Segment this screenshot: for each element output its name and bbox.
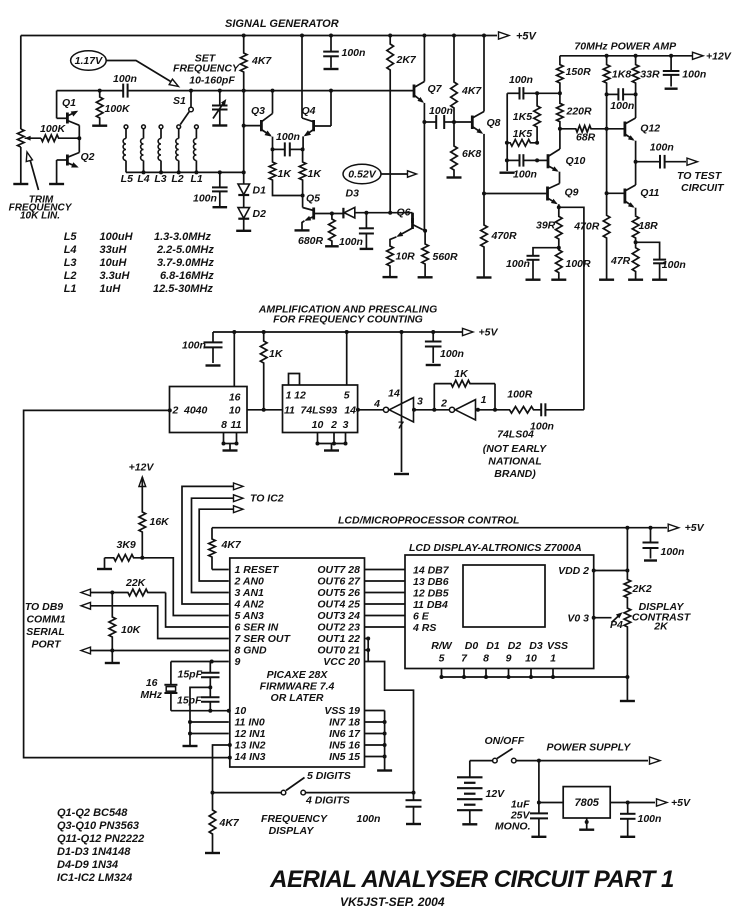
ground 100n detector bbox=[360, 248, 374, 250]
svg-text:L2: L2 bbox=[64, 270, 77, 282]
ground 47R bbox=[628, 279, 643, 281]
svg-text:D2: D2 bbox=[508, 640, 522, 652]
svg-text:+5V: +5V bbox=[685, 522, 705, 534]
transistor Q1 bbox=[66, 113, 69, 124]
wire pin9 bbox=[212, 661, 229, 663]
ground 100n Q11 bbox=[652, 279, 667, 281]
svg-text:Q11-Q12 PN2222: Q11-Q12 PN2222 bbox=[57, 833, 144, 845]
svg-text:10: 10 bbox=[235, 705, 247, 717]
svg-text:680R: 680R bbox=[298, 235, 324, 247]
resistor 18R bbox=[632, 215, 639, 242]
arrow 1.17V pointer bbox=[106, 61, 174, 84]
wire LCD bottom pins bbox=[441, 669, 443, 678]
wire battery top bbox=[470, 760, 493, 762]
svg-text:1: 1 bbox=[286, 390, 292, 402]
wire rail2 left segment bbox=[57, 90, 124, 92]
wire 74LS93 ground pins bbox=[317, 433, 319, 444]
svg-text:150R: 150R bbox=[566, 66, 592, 78]
wire LCD control rail bbox=[212, 527, 667, 529]
ground battery bbox=[469, 810, 471, 823]
resistor 4K7 pulldown bbox=[209, 793, 216, 853]
ground 10R bbox=[383, 276, 398, 278]
svg-text:100R: 100R bbox=[507, 389, 533, 401]
svg-text:Q6: Q6 bbox=[397, 207, 411, 219]
svg-text:P4: P4 bbox=[610, 619, 623, 631]
node 15pF mid bbox=[208, 685, 212, 689]
svg-text:100n: 100n bbox=[662, 259, 686, 271]
resistor 4K7 reset bbox=[211, 528, 213, 538]
wire left vertical rail bbox=[20, 36, 22, 130]
transistor Q9 bbox=[546, 187, 549, 201]
svg-text:IN6 17: IN6 17 bbox=[329, 728, 361, 740]
svg-text:L1: L1 bbox=[190, 173, 202, 185]
svg-text:V0 3: V0 3 bbox=[567, 613, 589, 625]
node pin14 edge bbox=[228, 756, 232, 760]
capacitor 100n Q11 emitter bbox=[636, 242, 660, 259]
resistor 220R bbox=[557, 93, 564, 129]
resistor 150R bbox=[557, 56, 564, 94]
svg-text:D4-D9 1N34: D4-D9 1N34 bbox=[57, 859, 118, 871]
svg-text:MONO.: MONO. bbox=[495, 821, 531, 833]
ground 3K9 bbox=[104, 558, 106, 568]
svg-text:6.8-16MHz: 6.8-16MHz bbox=[160, 270, 214, 282]
svg-text:OUT5 26: OUT5 26 bbox=[317, 587, 360, 599]
wire 4040 pin2 loop bbox=[168, 408, 172, 412]
svg-text:100n: 100n bbox=[610, 100, 634, 112]
resistor 47R bbox=[632, 242, 639, 279]
svg-text:AERIAL ANALYSER CIRCUIT PAR: AERIAL ANALYSER CIRCUIT PART 1 bbox=[269, 866, 674, 893]
power flag +5V bbox=[499, 32, 510, 39]
svg-text:Q7: Q7 bbox=[428, 83, 443, 95]
svg-text:22K: 22K bbox=[125, 577, 147, 589]
ground 100n VCC bbox=[406, 823, 421, 825]
node coil junctions bbox=[142, 170, 146, 174]
ground 100n Q9 bbox=[526, 279, 541, 281]
svg-text:VK5JST-SEP. 2004: VK5JST-SEP. 2004 bbox=[340, 895, 445, 909]
wire fb left vertical bbox=[506, 93, 508, 171]
IC 4040 bbox=[170, 387, 248, 433]
svg-text:SIGNAL GENERATOR: SIGNAL GENERATOR bbox=[225, 18, 339, 30]
svg-text:10: 10 bbox=[525, 653, 537, 665]
svg-text:100n: 100n bbox=[113, 73, 137, 85]
node 33R bottom bbox=[634, 92, 638, 96]
svg-text:12V: 12V bbox=[486, 788, 506, 800]
capacitor 100n fb top bbox=[507, 92, 519, 94]
node 680R top bbox=[330, 212, 334, 216]
capacitor 100n output bbox=[636, 161, 660, 163]
callout 0.52V bbox=[343, 164, 381, 183]
wire D2 bottom bbox=[243, 219, 245, 231]
ground Q2 bbox=[49, 183, 64, 185]
svg-text:4K7: 4K7 bbox=[221, 539, 242, 551]
transistor Q11 bbox=[624, 189, 627, 204]
transistor Q7 bbox=[413, 85, 416, 98]
resistor 4K7 osc bbox=[242, 34, 246, 38]
svg-text:5 AN3: 5 AN3 bbox=[235, 610, 265, 622]
svg-text:6K8: 6K8 bbox=[462, 148, 481, 160]
resistor 16K bbox=[139, 511, 146, 558]
svg-text:10uH: 10uH bbox=[100, 257, 128, 269]
resistor 39R bbox=[556, 207, 563, 247]
svg-text:Q12: Q12 bbox=[640, 123, 660, 135]
node 560R top bbox=[423, 229, 427, 233]
svg-text:12.5-30MHz: 12.5-30MHz bbox=[153, 283, 213, 295]
resistor 1K feedback bbox=[433, 384, 435, 410]
svg-text:1: 1 bbox=[481, 394, 487, 406]
svg-text:33uH: 33uH bbox=[100, 244, 128, 256]
svg-text:33R: 33R bbox=[640, 69, 660, 81]
capacitor 100n osc rail bbox=[329, 34, 333, 38]
LCD screen rectangle bbox=[463, 565, 545, 627]
svg-text:R/W: R/W bbox=[431, 640, 453, 652]
wire trim pot bottom bbox=[20, 147, 22, 184]
wire rail2 mid segment bbox=[128, 90, 414, 92]
svg-text:Q3: Q3 bbox=[251, 105, 265, 117]
svg-text:+12V: +12V bbox=[706, 51, 732, 63]
wire 7805 output bbox=[610, 802, 655, 804]
wire 4040 pin10 to 74LS93 bbox=[247, 409, 283, 411]
variable capacitor 10-160pF bbox=[218, 89, 222, 93]
power flag supply bbox=[650, 757, 661, 764]
svg-text:100n: 100n bbox=[357, 813, 381, 825]
ground Q5 bbox=[295, 229, 310, 231]
power flag +5V out bbox=[657, 799, 668, 806]
svg-text:OUT3 24: OUT3 24 bbox=[317, 610, 360, 622]
node Q9 emitter bbox=[557, 205, 561, 209]
transistor Q8 bbox=[471, 116, 474, 130]
capacitor 100n osc feedback bbox=[273, 148, 285, 150]
svg-text:1K5: 1K5 bbox=[513, 111, 532, 123]
svg-text:5: 5 bbox=[439, 653, 445, 665]
resistor 680R bbox=[329, 214, 336, 246]
svg-text:5 DIGITS: 5 DIGITS bbox=[307, 770, 351, 782]
svg-text:IC1-IC2 LM324: IC1-IC2 LM324 bbox=[57, 872, 132, 884]
svg-text:Q9: Q9 bbox=[565, 187, 579, 199]
IC LCD module bbox=[405, 555, 594, 669]
svg-text:100uH: 100uH bbox=[100, 231, 134, 243]
node Q5 collector bbox=[301, 194, 305, 198]
IC PICAXE 28X bbox=[230, 558, 365, 767]
ground 100n prescaler right bbox=[426, 364, 441, 366]
svg-text:0.52V: 0.52V bbox=[348, 169, 376, 181]
svg-text:OR LATER: OR LATER bbox=[271, 692, 324, 704]
svg-text:D0: D0 bbox=[465, 640, 479, 652]
transistor Q10 bbox=[547, 154, 550, 168]
svg-text:ON/OFF: ON/OFF bbox=[485, 735, 525, 747]
svg-text:Q11: Q11 bbox=[640, 187, 659, 199]
node Q7 100n bbox=[422, 120, 426, 124]
svg-text:2 AN0: 2 AN0 bbox=[234, 576, 265, 588]
svg-text:8: 8 bbox=[483, 653, 489, 665]
resistor 470R Q11 bias bbox=[603, 193, 610, 279]
wire +5V top rail bbox=[21, 35, 497, 37]
svg-text:4: 4 bbox=[373, 398, 380, 410]
resistor 68R bbox=[560, 126, 607, 133]
svg-text:LCD DISPLAY-ALTRONICS Z7000A: LCD DISPLAY-ALTRONICS Z7000A bbox=[409, 542, 582, 554]
wire to IC2 pin2 bbox=[199, 509, 236, 581]
svg-text:100n: 100n bbox=[638, 813, 662, 825]
svg-text:TO DB9: TO DB9 bbox=[25, 601, 63, 613]
wire pins 22 21 tie bbox=[365, 638, 369, 640]
wire pin11 gnd bbox=[190, 721, 229, 723]
wire LCD ground rail bbox=[442, 676, 628, 678]
svg-text:VSS: VSS bbox=[547, 640, 568, 652]
wire pin7 to DB9 bbox=[91, 606, 229, 639]
svg-text:100n: 100n bbox=[342, 47, 366, 59]
inductor L3 bbox=[159, 125, 163, 129]
ground pins 11 12 bbox=[183, 745, 198, 747]
resistor 1K prescaler bbox=[262, 330, 266, 334]
svg-text:FREQUENCY: FREQUENCY bbox=[261, 813, 328, 825]
ground 100K bbox=[99, 120, 101, 126]
wire pin12 gnd bbox=[190, 733, 229, 735]
ground trim pot bbox=[13, 183, 28, 185]
svg-text:100n: 100n bbox=[682, 69, 706, 81]
svg-text:FOR FREQUENCY COUNTING: FOR FREQUENCY COUNTING bbox=[273, 314, 423, 326]
transistor Q12 bbox=[624, 122, 627, 137]
ground 470R bias bbox=[477, 276, 492, 278]
switch on/off bbox=[493, 758, 498, 763]
svg-text:3: 3 bbox=[343, 419, 349, 431]
svg-text:12 IN1: 12 IN1 bbox=[235, 728, 266, 740]
svg-text:1.17V: 1.17V bbox=[75, 55, 103, 67]
resistor 10R bbox=[387, 245, 394, 277]
svg-text:100n: 100n bbox=[440, 348, 464, 360]
svg-text:10K LIN.: 10K LIN. bbox=[20, 211, 60, 222]
svg-text:7805: 7805 bbox=[574, 797, 599, 809]
svg-text:1K: 1K bbox=[454, 368, 469, 380]
svg-text:Q4: Q4 bbox=[302, 105, 316, 117]
ground 100n LCD bbox=[644, 559, 657, 561]
svg-text:FREQUENCY: FREQUENCY bbox=[173, 63, 240, 75]
power flag +5V LCD bbox=[668, 524, 679, 531]
resistor 100K horizontal bbox=[41, 135, 79, 142]
svg-text:3.7-9.0MHz: 3.7-9.0MHz bbox=[157, 257, 214, 269]
capacitor 15pF bottom bbox=[209, 687, 211, 697]
svg-text:10K: 10K bbox=[121, 624, 142, 636]
wire crystal ground bbox=[190, 687, 210, 745]
svg-text:6 E: 6 E bbox=[413, 611, 430, 623]
wire 74LS93 pin14 out bbox=[358, 409, 384, 411]
svg-text:+12V: +12V bbox=[129, 462, 155, 474]
svg-text:11 IN0: 11 IN0 bbox=[235, 717, 265, 729]
diode D1 bbox=[238, 184, 250, 195]
capacitor 100n 12V rail bbox=[669, 54, 673, 58]
node Q1Q2 junction bbox=[77, 136, 81, 140]
ground 74LS93 bbox=[324, 449, 339, 451]
capacitor 100n prescaler right bbox=[431, 330, 435, 334]
svg-text:PORT: PORT bbox=[32, 639, 63, 651]
ground variable capacitor bbox=[212, 124, 227, 126]
transistor Q3 bbox=[260, 120, 263, 131]
svg-text:Q1: Q1 bbox=[62, 97, 76, 109]
svg-text:10: 10 bbox=[312, 419, 324, 431]
inductor L4 bbox=[142, 125, 146, 129]
svg-text:1K: 1K bbox=[278, 168, 293, 180]
svg-text:D3: D3 bbox=[529, 640, 543, 652]
node 4K7 6K8 bbox=[452, 120, 456, 124]
arrow DB9 out1 bbox=[81, 589, 91, 596]
svg-text:TO IC2: TO IC2 bbox=[250, 493, 284, 505]
node 1K5h right bbox=[535, 141, 539, 145]
svg-text:OUT0 21: OUT0 21 bbox=[317, 645, 360, 657]
wire VDD2 bbox=[594, 570, 628, 572]
svg-text:1.3-3.0MHz: 1.3-3.0MHz bbox=[154, 231, 211, 243]
power flag to test circuit bbox=[687, 158, 698, 165]
svg-text:IN5 16: IN5 16 bbox=[329, 740, 360, 752]
svg-text:DISPLAY: DISPLAY bbox=[269, 825, 315, 837]
svg-text:74LS93: 74LS93 bbox=[301, 405, 338, 417]
svg-text:BRAND): BRAND) bbox=[494, 468, 536, 480]
svg-text:2: 2 bbox=[330, 419, 337, 431]
svg-text:1K: 1K bbox=[269, 348, 284, 360]
svg-text:8 GND: 8 GND bbox=[235, 645, 268, 657]
svg-text:2: 2 bbox=[172, 405, 179, 417]
capacitor 15pF top bbox=[209, 662, 211, 673]
wire coil bottom rail bbox=[126, 171, 244, 173]
node 4K7 rail2 bbox=[242, 89, 246, 93]
svg-text:VCC 20: VCC 20 bbox=[323, 656, 360, 668]
svg-text:11: 11 bbox=[231, 419, 242, 431]
svg-text:4 AN2: 4 AN2 bbox=[234, 599, 265, 611]
wire 4K7 to Q3 base bbox=[243, 91, 245, 126]
power flag +5V prescaler bbox=[463, 328, 474, 335]
resistor 10K bbox=[109, 593, 116, 651]
wire +12V rail bbox=[560, 55, 692, 57]
svg-text:16K: 16K bbox=[150, 516, 171, 528]
svg-text:2K: 2K bbox=[653, 621, 669, 633]
node 220R bottom bbox=[558, 127, 562, 131]
resistor 1K5 horizontal bbox=[507, 140, 537, 147]
resistor 33R bbox=[634, 54, 638, 58]
wire 7805 input bbox=[538, 761, 540, 803]
svg-text:D1: D1 bbox=[486, 640, 500, 652]
resistor 100R input bbox=[509, 407, 541, 414]
svg-text:5: 5 bbox=[344, 390, 350, 402]
svg-text:MHz: MHz bbox=[140, 689, 162, 701]
svg-text:L4: L4 bbox=[64, 244, 77, 256]
resistor 470R bias bbox=[481, 194, 488, 278]
wire 74LS04 power bbox=[400, 330, 404, 334]
svg-text:100n: 100n bbox=[339, 236, 363, 248]
svg-text:4040: 4040 bbox=[183, 405, 208, 417]
wire 74LS93 pin5 bbox=[346, 332, 348, 385]
svg-text:100n: 100n bbox=[506, 258, 530, 270]
wire Q7 emitter to Q6 bbox=[423, 122, 425, 231]
wire 1K join bbox=[273, 186, 303, 196]
ground D2 bbox=[236, 230, 251, 232]
svg-text:2K2: 2K2 bbox=[632, 583, 652, 595]
node det 2K7 bbox=[388, 211, 392, 215]
resistor 2K2 bbox=[626, 528, 628, 571]
capacitor 100n detector bbox=[365, 213, 367, 229]
svg-text:L2: L2 bbox=[171, 173, 183, 185]
svg-text:11 DB4: 11 DB4 bbox=[413, 599, 448, 611]
svg-text:100n: 100n bbox=[650, 142, 674, 154]
svg-text:100R: 100R bbox=[566, 258, 592, 270]
wire D1 top bbox=[243, 172, 245, 184]
capacitor 100n PSU bbox=[627, 803, 629, 814]
wire Q12 base bbox=[607, 128, 624, 130]
svg-text:12: 12 bbox=[294, 390, 306, 402]
svg-text:470R: 470R bbox=[491, 230, 518, 242]
transistor Q4 bbox=[312, 120, 315, 131]
node osc cap right bbox=[301, 147, 305, 151]
svg-text:POWER SUPPLY: POWER SUPPLY bbox=[547, 742, 632, 754]
svg-text:14: 14 bbox=[344, 405, 356, 417]
node 22K 10K bbox=[110, 591, 114, 595]
node 68R Q12base bbox=[605, 127, 609, 131]
svg-text:100n: 100n bbox=[182, 340, 206, 352]
svg-text:COMM1: COMM1 bbox=[26, 614, 65, 626]
node fb bottom right bbox=[535, 158, 539, 162]
svg-text:Q2: Q2 bbox=[81, 151, 95, 163]
wire tap to prescaler bbox=[559, 207, 584, 409]
svg-text:+5V: +5V bbox=[479, 327, 499, 339]
wire Q2 base bbox=[57, 159, 68, 161]
svg-text:L3: L3 bbox=[64, 257, 77, 269]
svg-text:8: 8 bbox=[221, 419, 227, 431]
wire 4040 ground pins bbox=[223, 433, 225, 444]
svg-text:100n: 100n bbox=[513, 169, 537, 181]
svg-text:4K7: 4K7 bbox=[461, 85, 482, 97]
wire Q5 base bbox=[314, 213, 344, 215]
svg-text:1 RESET: 1 RESET bbox=[235, 564, 280, 576]
svg-text:6 SER IN: 6 SER IN bbox=[235, 622, 279, 634]
diode D2 bbox=[238, 208, 250, 219]
resistor 560R bbox=[422, 231, 429, 278]
svg-text:470R: 470R bbox=[573, 220, 600, 232]
IC 7805 regulator bbox=[563, 787, 610, 818]
capacitor 100n LCD bbox=[649, 526, 653, 530]
svg-text:+5V: +5V bbox=[671, 797, 691, 809]
svg-text:16: 16 bbox=[146, 677, 158, 689]
svg-text:220R: 220R bbox=[566, 106, 593, 118]
svg-text:13 IN2: 13 IN2 bbox=[235, 740, 266, 752]
svg-text:39R: 39R bbox=[536, 220, 556, 232]
capacitor 100n coupling bbox=[122, 90, 124, 92]
svg-text:D3: D3 bbox=[346, 188, 360, 200]
resistor 1K right bbox=[299, 149, 306, 195]
svg-text:Q8: Q8 bbox=[487, 117, 501, 129]
resistor 3K9 bbox=[105, 555, 143, 562]
switch digits bbox=[281, 790, 286, 795]
inverter gate B 74LS04 bbox=[449, 407, 454, 412]
capacitor 100n prescaler left bbox=[212, 332, 214, 342]
svg-text:14: 14 bbox=[388, 388, 400, 400]
wire 16K node to pin5 bbox=[142, 558, 229, 616]
node 10K bottom bbox=[110, 649, 114, 653]
svg-text:OUT4 25: OUT4 25 bbox=[317, 599, 360, 611]
wire 22K to pin6 bbox=[166, 593, 229, 628]
resistor 1K8 bbox=[605, 54, 609, 58]
svg-text:4K7: 4K7 bbox=[219, 817, 240, 829]
svg-text:D1: D1 bbox=[253, 185, 267, 197]
wire LCD data lines bbox=[365, 569, 406, 571]
svg-text:10R: 10R bbox=[396, 251, 416, 263]
node 100K top bbox=[98, 89, 102, 93]
resistor 2K7 bbox=[388, 34, 392, 38]
svg-text:3: 3 bbox=[417, 396, 423, 408]
node output bbox=[634, 160, 638, 164]
svg-text:NATIONAL: NATIONAL bbox=[488, 456, 541, 468]
resistor 22K bbox=[91, 589, 166, 596]
svg-text:CIRCUIT: CIRCUIT bbox=[681, 182, 725, 194]
ground 7805 bbox=[579, 829, 594, 831]
wire D1-D2 bbox=[243, 195, 245, 208]
svg-text:OUT6 27: OUT6 27 bbox=[317, 576, 361, 588]
svg-text:100n: 100n bbox=[661, 546, 685, 558]
